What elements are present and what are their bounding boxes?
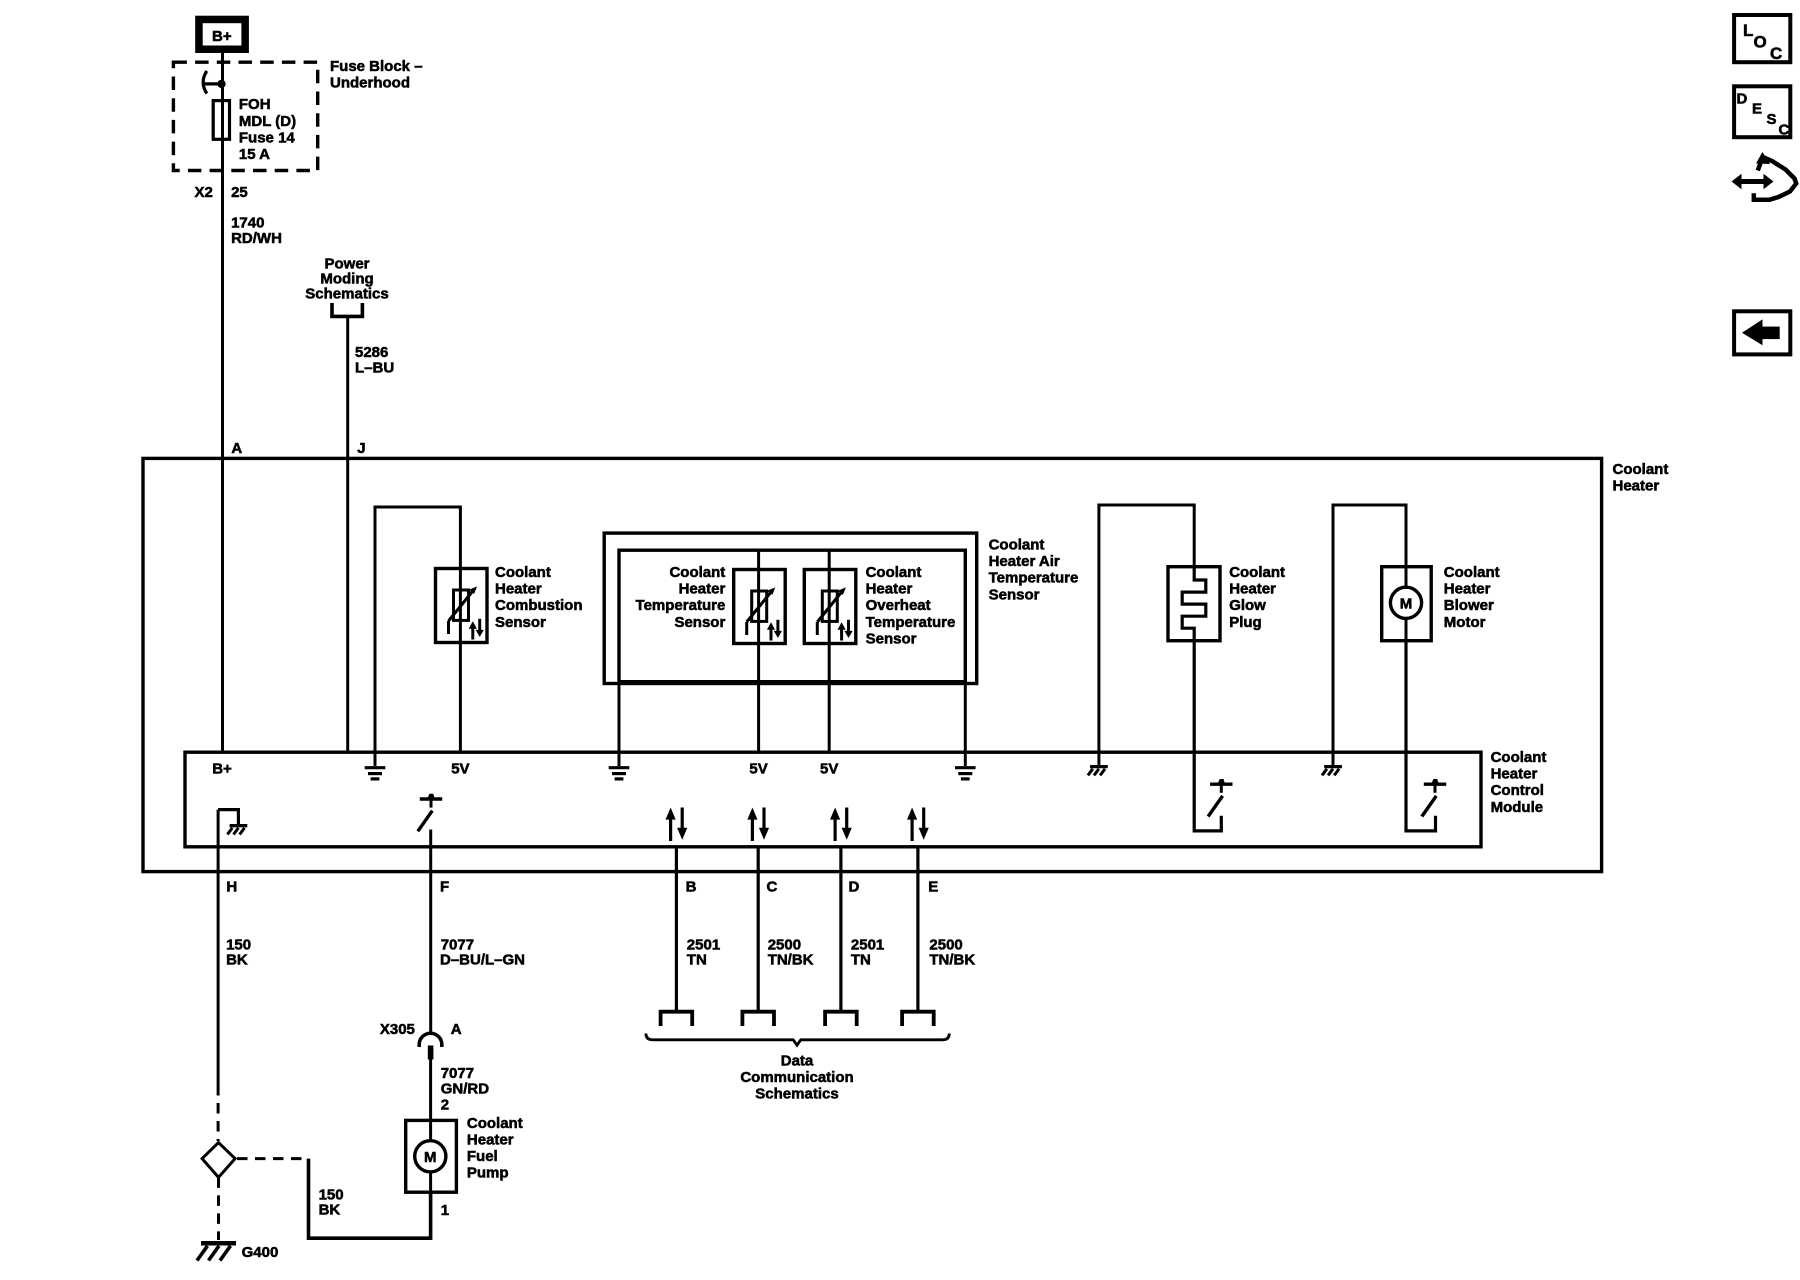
svg-text:Coolant: Coolant	[1491, 749, 1547, 766]
svg-text:Underhood: Underhood	[330, 74, 410, 91]
pin label H	[226, 878, 237, 895]
pin label J	[357, 440, 365, 457]
pin label E	[928, 878, 938, 895]
module internal ground for pin H	[218, 810, 247, 835]
svg-text:Heater: Heater	[1613, 478, 1660, 495]
svg-text:S: S	[1767, 111, 1777, 128]
splice diamond	[202, 1143, 235, 1178]
svg-text:Schematics: Schematics	[305, 285, 388, 302]
svg-text:Heater: Heater	[866, 581, 913, 598]
module data pin E arrows	[907, 808, 929, 842]
svg-text:O: O	[1754, 33, 1767, 52]
svg-text:Temperature: Temperature	[989, 570, 1079, 587]
connector id X2 pin 25	[195, 184, 248, 201]
DESC navigation box	[1734, 86, 1790, 138]
ground G400	[197, 1243, 278, 1261]
wire label 2501 TN (B)	[687, 936, 720, 968]
svg-text:Sensor: Sensor	[674, 614, 725, 631]
svg-text:H: H	[226, 878, 237, 895]
coolant heater assembly box	[143, 458, 1602, 871]
svg-text:B+: B+	[212, 28, 232, 45]
svg-text:Sensor: Sensor	[866, 630, 917, 647]
label X305 / A	[380, 1021, 462, 1038]
wire 2500 TN/BK from pin C	[757, 846, 760, 1012]
module ground pin (combustion sensor return)	[365, 752, 386, 779]
svg-text:L: L	[1743, 21, 1753, 40]
air temperature sensor inner box	[619, 550, 965, 682]
svg-text:5V: 5V	[749, 761, 767, 778]
coolant heater glow plug	[1168, 567, 1220, 641]
terminal connector pin E	[902, 1012, 934, 1026]
svg-text:Pump: Pump	[467, 1165, 509, 1182]
svg-text:Coolant: Coolant	[1444, 564, 1500, 581]
svg-text:BK: BK	[319, 1202, 341, 1219]
terminal connector pin D	[825, 1012, 857, 1026]
svg-text:1: 1	[441, 1202, 449, 1219]
wire 7077 D-BU/L-GN from pin F	[429, 830, 432, 1034]
module ground pin (air temp sensor left)	[609, 752, 630, 779]
svg-text:Sensor: Sensor	[495, 614, 546, 631]
label Coolant Heater Blower Motor	[1444, 564, 1500, 631]
label Coolant Heater Overheat Temperature Sensor	[866, 564, 956, 647]
svg-text:Combustion: Combustion	[495, 597, 583, 614]
wire label 150 BK (pump return)	[319, 1186, 344, 1218]
module output switch for pin F (fuel pump driver)	[418, 794, 442, 832]
svg-text:25: 25	[231, 184, 248, 201]
svg-text:D: D	[849, 878, 860, 895]
svg-text:Fuel: Fuel	[467, 1148, 498, 1165]
svg-text:Motor: Motor	[1444, 614, 1486, 631]
svg-text:E: E	[928, 878, 938, 895]
module ground pin (air temp sensor right)	[955, 752, 976, 779]
full-schematic arrow icon	[1732, 152, 1797, 200]
svg-text:MDL (D): MDL (D)	[239, 113, 296, 130]
svg-text:L–BU: L–BU	[355, 360, 394, 377]
svg-text:TN: TN	[687, 952, 707, 969]
svg-text:Heater Air: Heater Air	[989, 553, 1060, 570]
combustion sensor 5V wire	[459, 643, 462, 753]
coolant heater control module box	[185, 752, 1481, 847]
dashed wire splice to pump return	[237, 1157, 306, 1160]
wire 2501 TN from pin D	[839, 846, 842, 1012]
label Fuse Block - Underhood	[330, 58, 423, 91]
svg-text:Overheat: Overheat	[866, 597, 931, 614]
svg-text:TN: TN	[851, 952, 871, 969]
glow plug control wire	[1194, 641, 1221, 831]
label Coolant Heater Temperature Sensor	[636, 564, 726, 631]
blower motor control wire	[1406, 641, 1436, 831]
svg-text:X305: X305	[380, 1021, 415, 1038]
svg-text:GN/RD: GN/RD	[441, 1080, 490, 1097]
svg-text:FOH: FOH	[239, 96, 271, 113]
svg-text:X2: X2	[195, 184, 213, 201]
module blower driver switch	[1422, 779, 1446, 817]
svg-text:Heater: Heater	[1444, 581, 1491, 598]
pin label C	[767, 878, 778, 895]
svg-text:Blower: Blower	[1444, 597, 1494, 614]
module 5V pin (temperature sensor)	[749, 761, 767, 778]
svg-text:15 A: 15 A	[239, 146, 270, 163]
coolant heater overheat temperature sensor	[804, 550, 856, 752]
wire 2500 TN/BK from pin E	[916, 846, 919, 1012]
svg-text:Control: Control	[1491, 782, 1544, 799]
wire label 7077 D-BU/L-GN	[440, 936, 525, 968]
wire label 2500 TN/BK (C)	[768, 936, 814, 968]
svg-text:Coolant: Coolant	[669, 564, 725, 581]
wire 1740 RD/WH from B+ through fuse down to module pin A	[221, 49, 224, 753]
module glow plug driver switch	[1208, 779, 1232, 817]
dashed wire to ground G400	[217, 1177, 220, 1240]
fuse FOH MDL (D) Fuse 14 15 A	[213, 101, 229, 140]
wire label 2501 TN (D)	[851, 936, 884, 968]
off-page reference Data Communication Schematics	[740, 1053, 853, 1103]
svg-text:Sensor: Sensor	[989, 586, 1040, 603]
svg-text:C: C	[1779, 122, 1790, 139]
svg-text:RD/WH: RD/WH	[231, 230, 282, 247]
svg-text:D–BU/L–GN: D–BU/L–GN	[440, 952, 525, 969]
svg-text:A: A	[451, 1021, 462, 1038]
coolant heater blower motor M	[1382, 567, 1432, 641]
svg-text:B+: B+	[212, 761, 232, 778]
svg-text:B: B	[686, 878, 697, 895]
svg-text:M: M	[1400, 595, 1413, 612]
svg-text:Coolant: Coolant	[1613, 461, 1669, 478]
coolant heater temperature sensor	[734, 550, 786, 752]
pump pin 1 label	[441, 1202, 449, 1219]
svg-text:Fuse 14: Fuse 14	[239, 129, 296, 146]
svg-text:Plug: Plug	[1229, 614, 1262, 631]
label Coolant Heater Air Temperature Sensor	[989, 537, 1079, 604]
svg-text:Data: Data	[781, 1053, 814, 1070]
module data pin D arrows	[830, 808, 852, 842]
wire label 5286 L-BU	[355, 344, 394, 376]
module 5V pin (overheat sensor)	[820, 761, 838, 778]
module data pin B arrows	[666, 808, 688, 842]
svg-text:Coolant: Coolant	[866, 564, 922, 581]
module chassis ground (glow plug return)	[1088, 752, 1108, 775]
svg-text:Heater: Heater	[467, 1132, 514, 1149]
pin label D	[849, 878, 860, 895]
pin label A	[231, 440, 242, 457]
wire label 7077 GN/RD	[441, 1065, 490, 1097]
svg-text:Fuse Block –: Fuse Block –	[330, 58, 423, 75]
wire 150 BK pump return elbow	[309, 1159, 431, 1239]
blower motor ground-side loop wire	[1333, 505, 1406, 752]
off-page reference Power Moding Schematics	[305, 255, 388, 302]
battery terminal B+	[199, 19, 245, 49]
terminal connector pin C	[742, 1012, 774, 1026]
air temp sensor left ground wire	[618, 682, 621, 752]
svg-text:Coolant: Coolant	[495, 564, 551, 581]
svg-text:2: 2	[441, 1097, 449, 1114]
svg-text:5V: 5V	[820, 761, 838, 778]
label Coolant Heater Control Module	[1491, 749, 1547, 816]
svg-text:Glow: Glow	[1229, 597, 1266, 614]
wire 2501 TN from pin B	[675, 846, 678, 1012]
pin label B	[686, 878, 697, 895]
svg-text:Communication: Communication	[740, 1069, 853, 1086]
fuse block underhood dashed box	[173, 62, 317, 170]
LOC navigation box	[1734, 15, 1790, 63]
svg-text:C: C	[1770, 44, 1782, 63]
label Coolant Heater Glow Plug	[1229, 564, 1285, 631]
svg-text:Heater: Heater	[495, 581, 542, 598]
back arrow box	[1734, 311, 1790, 354]
coolant heater combustion sensor	[436, 569, 488, 643]
svg-text:F: F	[440, 878, 449, 895]
terminal connector pin B	[661, 1012, 693, 1026]
svg-text:E: E	[1752, 101, 1762, 118]
wire label 2500 TN/BK (E)	[929, 936, 975, 968]
combustion sensor loop wire to ground	[375, 507, 460, 752]
svg-text:G400: G400	[242, 1244, 279, 1261]
svg-text:TN/BK: TN/BK	[768, 952, 814, 969]
wire 150 BK dashed to splice	[217, 1085, 220, 1141]
wire label 150 BK	[226, 936, 251, 968]
svg-text:Temperature: Temperature	[636, 597, 726, 614]
svg-text:J: J	[357, 440, 365, 457]
data communication brace	[646, 1034, 949, 1046]
pump pin 2 label	[441, 1097, 449, 1114]
label Coolant Heater Combustion Sensor	[495, 564, 583, 631]
svg-text:Coolant: Coolant	[467, 1115, 523, 1132]
svg-text:A: A	[231, 440, 242, 457]
inline connector X305 pin A	[419, 1033, 442, 1059]
connector terminal inside fuse block	[203, 71, 226, 94]
svg-text:Heater: Heater	[1491, 766, 1538, 783]
fuse value label	[239, 96, 296, 163]
module pin B+ label	[212, 761, 232, 778]
svg-text:Coolant: Coolant	[1229, 564, 1285, 581]
pin label F	[440, 878, 449, 895]
svg-text:D: D	[1737, 91, 1748, 108]
module chassis ground (blower return)	[1322, 752, 1342, 775]
label Coolant Heater Fuel Pump	[467, 1115, 523, 1182]
svg-text:Schematics: Schematics	[755, 1086, 838, 1103]
svg-text:Heater: Heater	[1229, 581, 1276, 598]
wire 7077 GN/RD below X305	[429, 1060, 432, 1121]
svg-text:Module: Module	[1491, 799, 1544, 816]
off-page bracket symbol	[332, 303, 362, 316]
module data pin C arrows	[747, 808, 769, 842]
air temp sensor right ground wire	[964, 682, 967, 752]
glow plug ground-side loop wire	[1099, 505, 1194, 752]
svg-text:5V: 5V	[451, 761, 469, 778]
coolant heater fuel pump M	[406, 1120, 457, 1192]
coolant heater air temperature sensor outer box	[604, 533, 977, 683]
wire 150 BK from pin H (solid)	[217, 810, 220, 1085]
label Coolant Heater	[1613, 461, 1669, 495]
svg-text:M: M	[424, 1149, 437, 1166]
wire label 1740 RD/WH	[231, 215, 282, 247]
svg-text:Temperature: Temperature	[866, 614, 956, 631]
svg-text:C: C	[767, 878, 778, 895]
svg-text:BK: BK	[226, 952, 248, 969]
svg-text:TN/BK: TN/BK	[929, 952, 975, 969]
svg-text:Heater: Heater	[679, 581, 726, 598]
module 5V pin (combustion sensor)	[451, 761, 469, 778]
wire 5286 L-BU to module pin J	[346, 318, 349, 752]
svg-text:Coolant: Coolant	[989, 537, 1045, 554]
